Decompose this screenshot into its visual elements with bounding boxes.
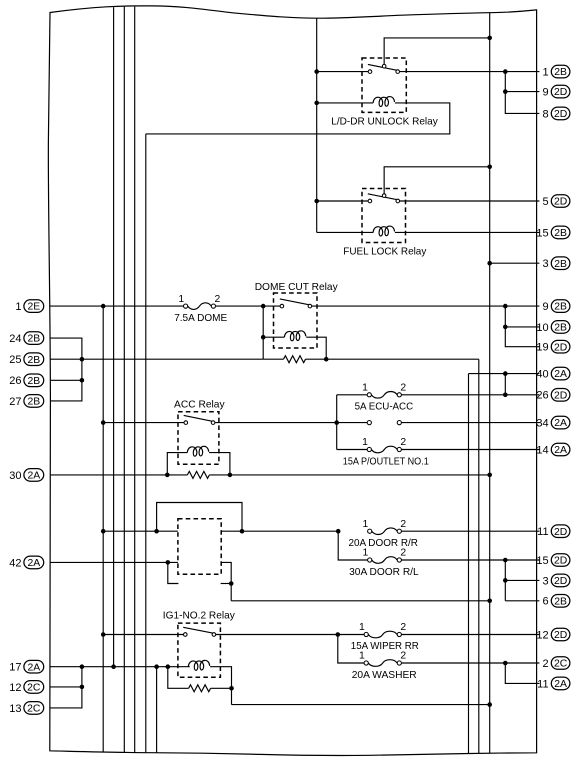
svg-text:2A: 2A — [27, 662, 40, 673]
wire FUEL LOCK switch output to 5(2D) — [400, 200, 540, 202]
svg-text:8: 8 — [542, 108, 548, 120]
svg-text:2E: 2E — [27, 302, 40, 313]
fuse 30A DOOR R/L terminal 2 — [397, 558, 401, 562]
wire DOME CUT resistor left node — [263, 358, 283, 360]
svg-text:1: 1 — [362, 437, 368, 448]
relay ACC switch terminal left — [184, 421, 188, 425]
svg-text:2C: 2C — [27, 683, 41, 694]
wire IG1 resistor right node — [211, 687, 232, 689]
wire wire 40(2A) elbow — [469, 373, 540, 375]
wire DOOR relay under-box stub right — [221, 583, 232, 585]
svg-text:9: 9 — [542, 87, 548, 99]
fuse 5A ECU-ACC element — [371, 392, 397, 399]
svg-text:IG1-NO.2 Relay: IG1-NO.2 Relay — [163, 611, 236, 622]
svg-text:2A: 2A — [554, 445, 567, 456]
svg-text:15A P/OUTLET NO.1: 15A P/OUTLET NO.1 — [343, 456, 429, 467]
fuse 15A P/OUTLET NO.1 terminal 1 — [367, 447, 371, 451]
svg-text:2B: 2B — [27, 376, 40, 387]
relay IG1-NO.2 switch terminal left — [184, 633, 188, 637]
relay coil ACC — [187, 446, 208, 456]
wire bus right x=489.7 — [489, 13, 491, 754]
svg-text:20A DOOR R/R: 20A DOOR R/R — [348, 538, 418, 549]
svg-text:2D: 2D — [554, 197, 567, 208]
svg-text:20A WASHER: 20A WASHER — [352, 670, 417, 681]
wire DOME CUT coil input — [263, 336, 284, 338]
svg-text:2B: 2B — [27, 334, 40, 345]
fuse 30A DOOR R/L element — [372, 557, 397, 564]
wire bus B4 — [134, 7, 136, 753]
svg-text:3: 3 — [542, 575, 548, 587]
svg-text:42: 42 — [9, 557, 21, 569]
wire IG1 resistor left jog — [168, 667, 189, 689]
wire wire 1(2E) to fuse 7.5A DOME — [50, 305, 183, 307]
svg-text:17: 17 — [9, 662, 21, 674]
wire wire ladder to 5A ECU-ACC — [337, 394, 368, 396]
fuse 15A WIPER RR element — [368, 631, 397, 638]
svg-text:26: 26 — [536, 390, 548, 402]
wire wire stub to 6(2B) — [505, 600, 539, 602]
wire wire 5A ECU-ACC to 26(2D) — [401, 394, 539, 396]
fuse 20A WASHER terminal 1 — [364, 661, 368, 665]
wire wire 26(2B) to tie — [50, 379, 82, 381]
svg-text:2B: 2B — [554, 596, 567, 607]
wire ACC switch input — [103, 422, 184, 424]
relay FUEL LOCK switch terminal right — [396, 199, 400, 203]
fuse 30A DOOR R/L terminal 1 — [368, 558, 372, 562]
svg-text:2D: 2D — [554, 527, 567, 538]
wire wire empty socket to 34(2A) — [401, 422, 539, 424]
wire fuse ladder vertical — [336, 395, 338, 450]
wire DOOR relay lower-left jog stub — [168, 562, 179, 583]
wire DOOR relay lower output jog — [221, 562, 231, 600]
svg-text:12: 12 — [536, 629, 548, 641]
wire DOOR relay bypass detour — [157, 503, 242, 532]
wire bus B1 (1-2E feed) — [102, 306, 104, 752]
svg-text:13: 13 — [9, 703, 21, 715]
svg-text:25: 25 — [9, 354, 21, 366]
wire ACC coil input jog — [167, 453, 187, 475]
fuse 7.5A DOME terminal 2 — [211, 304, 215, 308]
svg-text:5A ECU-ACC: 5A ECU-ACC — [355, 402, 414, 413]
svg-text:34: 34 — [536, 418, 548, 430]
svg-text:DOME CUT Relay: DOME CUT Relay — [255, 282, 339, 293]
relay coil FUEL LOCK — [373, 226, 394, 236]
svg-text:1: 1 — [359, 651, 365, 662]
wire ACC resistor right to bus-490 — [209, 474, 489, 476]
fuse 20A DOOR R/R terminal 1 — [368, 529, 372, 533]
svg-text:30: 30 — [9, 470, 21, 482]
svg-text:1: 1 — [542, 67, 548, 79]
fuse 15A P/OUTLET NO.1 terminal 2 — [397, 447, 401, 451]
relay DOOR dashed case — [178, 519, 221, 574]
svg-text:15: 15 — [536, 555, 548, 567]
svg-text:2D: 2D — [554, 576, 567, 587]
wire L/D-DR UNLOCK coil input — [317, 102, 373, 104]
svg-text:27: 27 — [9, 396, 21, 408]
wire wire 42(2A) lower input — [50, 561, 178, 563]
relay FUEL LOCK dashed case — [362, 189, 406, 243]
wire wire bus-490 to 3(2B) — [490, 262, 540, 264]
wire DOOR relay upper input — [103, 530, 178, 532]
svg-text:1: 1 — [363, 548, 369, 559]
svg-text:2A: 2A — [27, 558, 40, 569]
relay L/D-DR UNLOCK switch terminal right — [396, 70, 400, 74]
wire wire ladder to empty socket — [337, 422, 368, 424]
relay IG1-NO.2 switch blade — [183, 627, 213, 633]
wire IG1 switch input — [103, 634, 183, 636]
svg-text:12: 12 — [9, 682, 21, 694]
empty fuse socket ACC spare terminal left — [367, 421, 371, 425]
wire wire 17(2A) rail — [50, 666, 190, 668]
relay FUEL LOCK switch terminal left — [368, 199, 372, 203]
svg-text:2: 2 — [400, 519, 406, 530]
svg-text:2: 2 — [400, 622, 406, 633]
relay FUEL LOCK common pin — [382, 194, 386, 198]
svg-text:15: 15 — [536, 227, 548, 239]
svg-text:26: 26 — [9, 375, 21, 387]
svg-text:2: 2 — [400, 651, 406, 662]
svg-text:2: 2 — [542, 658, 548, 670]
wire wire 25(2B) rail — [50, 358, 263, 360]
resistor IG1 damping — [189, 685, 211, 692]
wire L/D-DR UNLOCK switch input — [317, 71, 369, 73]
wire bus left relay feed x=316.7 — [316, 18, 318, 232]
svg-text:19: 19 — [536, 342, 548, 354]
svg-text:L/D-DR UNLOCK Relay: L/D-DR UNLOCK Relay — [331, 116, 438, 127]
relay L/D-DR UNLOCK switch terminal left — [368, 70, 372, 74]
wire door fuse ladder — [338, 531, 368, 560]
relay DOME CUT switch terminal left — [280, 304, 284, 308]
relay L/D-DR UNLOCK dashed case — [362, 58, 406, 112]
svg-text:2D: 2D — [554, 630, 567, 641]
fuse 15A WIPER RR terminal 2 — [397, 632, 401, 636]
wire wire 13(2C) to tie — [50, 687, 82, 708]
wire wire ladder to 15A P/OUTLET NO.1 — [337, 449, 368, 451]
svg-text:2D: 2D — [554, 342, 567, 353]
wire branch 40-2A down-leg x=468.5 — [468, 374, 470, 754]
svg-text:2A: 2A — [27, 471, 40, 482]
relay L/D-DR UNLOCK common feed wire — [384, 38, 490, 65]
svg-text:2C: 2C — [554, 659, 568, 670]
svg-text:2A: 2A — [554, 679, 567, 690]
svg-text:2D: 2D — [554, 556, 567, 567]
wire stub 1(2B)/9(2D)/8(2D) tie — [505, 72, 539, 114]
wire DOME CUT coil output jog — [306, 337, 326, 359]
wire wire IG1 output to bus-490 — [232, 704, 490, 706]
svg-text:2B: 2B — [554, 228, 567, 239]
svg-text:5: 5 — [542, 196, 548, 208]
svg-text:1: 1 — [363, 519, 369, 530]
svg-text:2B: 2B — [554, 67, 567, 78]
svg-text:1: 1 — [15, 301, 21, 313]
svg-text:2B: 2B — [27, 355, 40, 366]
svg-text:ACC Relay: ACC Relay — [174, 400, 225, 411]
wire DOME CUT feed ladder — [262, 306, 264, 359]
wire wire 15A P/OUTLET NO.1 to 14(2A) — [401, 449, 539, 451]
svg-text:1: 1 — [359, 622, 365, 633]
relay ACC dashed case — [178, 412, 219, 465]
svg-text:2B: 2B — [554, 302, 567, 313]
relay coil L/D-DR UNLOCK — [373, 97, 394, 107]
svg-text:1: 1 — [362, 383, 368, 394]
fuse 15A WIPER RR terminal 1 — [364, 632, 368, 636]
svg-text:2C: 2C — [27, 704, 41, 715]
relay DOME CUT dashed case — [274, 293, 318, 348]
svg-text:2D: 2D — [554, 109, 567, 120]
wire wire to 3(2D) — [505, 579, 539, 581]
svg-text:2D: 2D — [554, 390, 567, 401]
wire wire 20A WASHER to 2(2C) — [401, 662, 539, 664]
wire wire 30A DOOR R/L to 15(2D) — [401, 559, 539, 561]
relay ACC switch terminal right — [211, 421, 215, 425]
wire wiper/washer ladder — [338, 635, 364, 664]
fuse 7.5A DOME element — [188, 303, 212, 310]
relay DOME CUT switch terminal right — [308, 304, 312, 308]
svg-text:11: 11 — [537, 678, 548, 690]
wire stub 40(2A)/26(2D) tie — [504, 374, 506, 395]
svg-text:2A: 2A — [554, 418, 567, 429]
svg-text:2: 2 — [400, 548, 406, 559]
svg-text:1: 1 — [178, 294, 184, 305]
wire FUEL LOCK coil output to 15(2B) — [395, 231, 540, 233]
fuse 7.5A DOME terminal 1 — [184, 304, 188, 308]
wire wire to 10(2B) — [505, 326, 539, 328]
wire stub 2(2C)/11(2A) tie — [505, 663, 539, 683]
wire bus B5 — [145, 134, 147, 753]
wire wire 24(2B) to tie — [50, 338, 82, 401]
wire wire DOOR lower to bus-490 — [231, 600, 490, 602]
wire DOOR relay upper output — [221, 530, 338, 532]
relay coil DOME CUT — [284, 331, 305, 341]
wire stub 15(2D)/3(2D)/6(2B) tie — [504, 560, 506, 601]
wire wire to 9(2D) — [505, 91, 539, 93]
wire FUEL LOCK switch input — [317, 200, 368, 202]
svg-text:14: 14 — [536, 444, 548, 456]
relay IG1-NO.2 switch terminal right — [212, 633, 216, 637]
relay L/D-DR UNLOCK common pin — [382, 64, 386, 68]
wire wire 12(2C) to tie — [50, 667, 82, 687]
svg-text:2D: 2D — [554, 87, 567, 98]
wire ACC coil output jog — [209, 453, 230, 475]
fuse 5A ECU-ACC terminal 1 — [367, 393, 371, 397]
wire IG1 coil output jog — [210, 667, 231, 705]
svg-text:2: 2 — [400, 383, 406, 394]
relay ACC switch blade — [184, 415, 212, 421]
svg-text:2: 2 — [215, 294, 221, 305]
svg-text:2B: 2B — [27, 397, 40, 408]
wire bus B3 — [123, 7, 125, 753]
relay FUEL LOCK common feed wire — [384, 167, 490, 194]
wire ACC switch output — [215, 422, 337, 424]
fuse 20A DOOR R/R terminal 2 — [397, 529, 401, 533]
wire stub 9(2B)/10(2B)/19(2D) tie — [505, 306, 539, 347]
svg-text:11: 11 — [537, 526, 548, 538]
wire L/D-DR UNLOCK coil output loop — [146, 103, 450, 134]
resistor ACC damping — [187, 471, 209, 478]
fuse 20A WASHER element — [368, 660, 397, 667]
relay IG1-NO.2 dashed case — [178, 623, 221, 677]
fuse 20A WASHER terminal 2 — [397, 661, 401, 665]
wire L/D-DR UNLOCK switch output to 1(2B) — [400, 71, 540, 73]
relay DOME CUT switch blade — [280, 299, 309, 305]
wire IG1 switch output — [216, 634, 364, 636]
wire wire 15A WIPER RR to 12(2D) — [401, 634, 539, 636]
svg-text:2A: 2A — [554, 369, 567, 380]
svg-text:2B: 2B — [554, 259, 567, 270]
wire wire 20A DOOR R/R to 11(2D) — [401, 530, 539, 532]
resistor DOME CUT damping — [284, 356, 306, 363]
wire DOME CUT resistor right node to down-leg — [306, 358, 479, 360]
fuse 5A ECU-ACC terminal 2 — [397, 393, 401, 397]
wire wire 30(2A) rail — [50, 474, 187, 476]
fuse 15A P/OUTLET NO.1 element — [371, 446, 397, 453]
svg-text:3: 3 — [542, 258, 548, 270]
fuse 20A DOOR R/R element — [372, 528, 397, 535]
wire FUEL LOCK coil input — [317, 231, 374, 233]
relay L/D-DR UNLOCK switch blade — [368, 64, 397, 70]
empty fuse socket ACC spare terminal right — [397, 421, 401, 425]
svg-text:7.5A DOME: 7.5A DOME — [174, 313, 227, 324]
svg-text:30A DOOR R/L: 30A DOOR R/L — [349, 567, 419, 578]
relay FUEL LOCK switch blade — [368, 194, 397, 200]
wire bus B2 — [113, 7, 115, 667]
svg-text:2: 2 — [400, 437, 406, 448]
svg-text:40: 40 — [536, 369, 548, 381]
wire bus B6 (17-2A branch) — [156, 667, 158, 753]
svg-text:6: 6 — [542, 596, 548, 608]
wire wire fuse DOME to DOME CUT relay — [216, 305, 281, 307]
wire branch 25-2B down-leg x=478.8 — [478, 359, 480, 753]
svg-text:10: 10 — [536, 322, 548, 334]
svg-text:24: 24 — [9, 333, 21, 345]
relay coil IG1-NO.2 — [188, 660, 209, 670]
svg-text:FUEL LOCK Relay: FUEL LOCK Relay — [343, 246, 427, 257]
wire DOME CUT switch output to 9(2B) — [312, 305, 540, 307]
svg-text:9: 9 — [542, 301, 548, 313]
svg-text:2B: 2B — [554, 323, 567, 334]
